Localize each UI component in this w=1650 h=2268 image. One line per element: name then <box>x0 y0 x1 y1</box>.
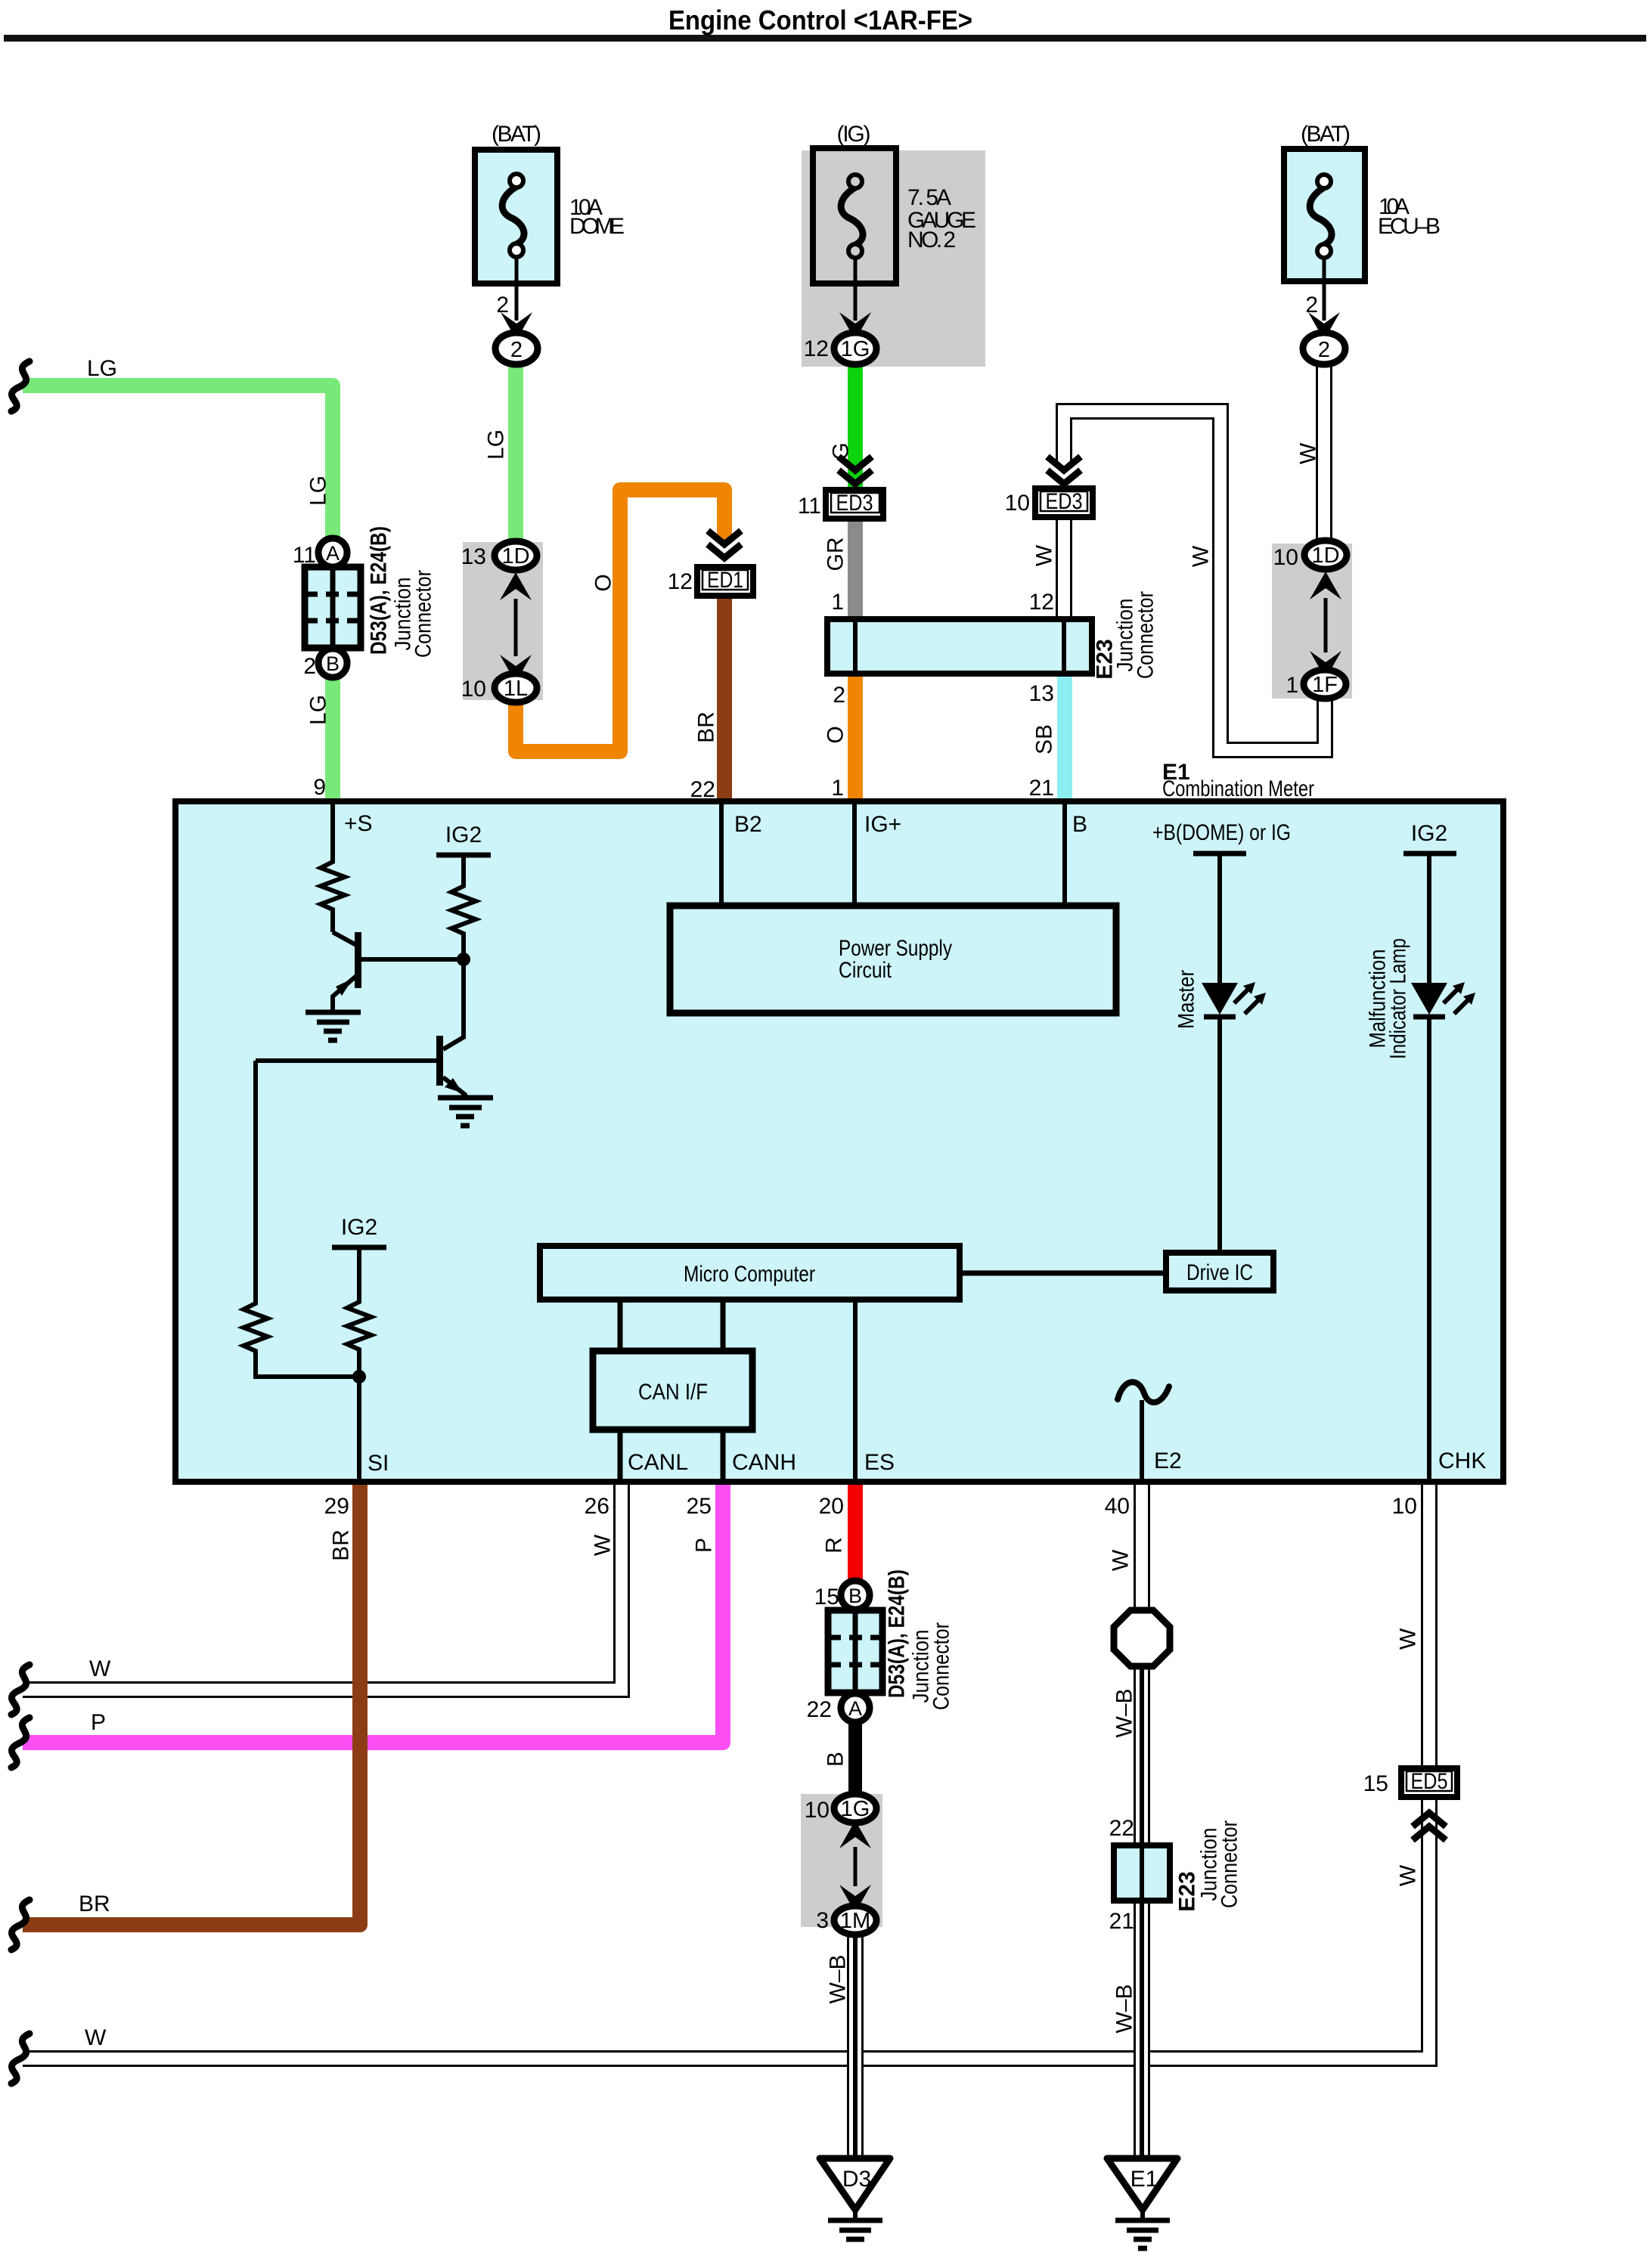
svg-text:10: 10 <box>805 1798 830 1823</box>
svg-text:P: P <box>91 1710 106 1735</box>
svg-text:Engine Control <1AR-FE>: Engine Control <1AR-FE> <box>668 5 972 36</box>
svg-text:B: B <box>823 1752 848 1767</box>
svg-text:BR: BR <box>329 1529 354 1561</box>
svg-text:Indicator Lamp: Indicator Lamp <box>1386 938 1411 1059</box>
node circle A upper <box>318 538 347 567</box>
svg-text:Micro Computer: Micro Computer <box>684 1262 815 1287</box>
svg-text:1: 1 <box>831 590 844 615</box>
svg-text:Drive IC: Drive IC <box>1186 1260 1253 1285</box>
LED Master <box>1174 970 1267 1029</box>
svg-text:CHK: CHK <box>1438 1448 1486 1473</box>
svg-text:CANH: CANH <box>732 1450 796 1475</box>
svg-text:Connector: Connector <box>1217 1820 1242 1908</box>
transistor Q2 <box>256 1036 465 1098</box>
Micro Computer box <box>540 1246 960 1300</box>
pigtail BR <box>11 1900 29 1950</box>
connector ED5 <box>1363 1768 1457 1840</box>
svg-text:ED5: ED5 <box>1411 1769 1448 1794</box>
svg-text:IG+: IG+ <box>864 812 901 837</box>
E1 Combination Meter box <box>175 760 1503 1482</box>
wire O 1L to ED1 <box>516 490 724 751</box>
octagon noise filter on E2 wire <box>1114 1610 1170 1666</box>
svg-text:R: R <box>822 1537 847 1554</box>
ground E1 <box>1107 2158 1177 2248</box>
fuse 7.5A GAUGE NO.2 <box>804 122 976 361</box>
svg-text:W–B: W–B <box>1112 1984 1137 2033</box>
svg-text:12: 12 <box>1029 590 1054 615</box>
svg-text:W: W <box>591 1534 616 1556</box>
resistor at +S <box>321 857 345 932</box>
svg-text:21: 21 <box>1109 1909 1134 1934</box>
Power Supply Circuit box <box>670 906 1116 1013</box>
ground inside meter below Q2 <box>438 1098 493 1126</box>
junction connector D53(A),E24(B) upper grid <box>305 567 361 648</box>
svg-text:2: 2 <box>510 338 523 362</box>
svg-text:CANL: CANL <box>628 1450 688 1475</box>
svg-text:1M: 1M <box>840 1909 870 1933</box>
resistor below IG2 lower <box>347 1297 371 1377</box>
svg-text:NO. 2: NO. 2 <box>907 228 956 253</box>
pigtail W bottom <box>11 2034 29 2084</box>
gray highlight block: 1D-1L connector pass-through <box>463 542 543 700</box>
svg-text:LG: LG <box>484 429 509 460</box>
svg-text:15: 15 <box>1363 1771 1388 1796</box>
svg-text:W: W <box>1396 1628 1421 1650</box>
svg-text:IG2: IG2 <box>341 1215 377 1240</box>
svg-text:7. 5A: 7. 5A <box>907 185 951 210</box>
svg-text:E2: E2 <box>1154 1448 1182 1473</box>
node circle B upper <box>318 649 347 677</box>
svg-text:B: B <box>326 652 340 675</box>
svg-text:1F: 1F <box>1312 673 1338 697</box>
ground D3 <box>820 2158 890 2239</box>
gray highlight block: 1G-1M connector pass-through <box>801 1794 882 1927</box>
svg-text:1D: 1D <box>1311 544 1339 568</box>
node IG2 right <box>1403 821 1456 983</box>
wire color labels rotated <box>79 356 1421 2050</box>
svg-text:BR: BR <box>79 1892 110 1916</box>
wire P meter CANH to left pigtail <box>23 1474 723 1743</box>
svg-text:ED3: ED3 <box>1046 489 1083 514</box>
ground inside meter below Q1 <box>305 1012 361 1040</box>
svg-text:W: W <box>85 2025 107 2050</box>
connector ellipse 2 below ECU-B fuse <box>1303 333 1345 364</box>
svg-text:E1: E1 <box>1130 2167 1158 2192</box>
svg-text:P: P <box>692 1538 717 1553</box>
junction connector E23 upper <box>827 590 1158 801</box>
svg-text:2: 2 <box>1318 338 1330 362</box>
svg-text:O: O <box>591 574 616 591</box>
svg-text:+B(DOME) or IG: +B(DOME) or IG <box>1152 820 1291 845</box>
connector ellipse 1L left <box>461 544 537 702</box>
svg-text:W: W <box>1109 1549 1134 1571</box>
svg-text:O: O <box>823 726 848 743</box>
svg-text:W: W <box>1296 442 1321 464</box>
svg-text:13: 13 <box>461 544 486 569</box>
title Engine Control <box>4 5 1646 42</box>
svg-text:(BAT): (BAT) <box>492 122 541 147</box>
svg-text:(BAT): (BAT) <box>1301 122 1351 147</box>
junction connector E23 lower <box>1109 1816 1242 1934</box>
svg-text:22: 22 <box>1109 1816 1134 1841</box>
svg-text:1G: 1G <box>841 1797 870 1821</box>
svg-text:W: W <box>1189 545 1214 567</box>
svg-text:GR: GR <box>823 538 848 572</box>
terminal stubs B2 IG+ B <box>721 801 1087 906</box>
svg-text:CAN I/F: CAN I/F <box>638 1380 708 1405</box>
pigtail P <box>11 1718 29 1768</box>
svg-text:1: 1 <box>831 776 844 801</box>
svg-text:Combination Meter: Combination Meter <box>1162 776 1314 801</box>
svg-text:B2: B2 <box>734 812 762 837</box>
resistor lower-left <box>243 1299 359 1377</box>
svg-text:LG: LG <box>87 356 117 381</box>
node circle A lower <box>807 1693 870 1722</box>
svg-text:IG2: IG2 <box>1411 821 1447 846</box>
wire Micro Computer to Drive IC <box>960 1271 1166 1276</box>
pigtail W upper <box>11 1665 29 1715</box>
svg-text:LG: LG <box>306 476 331 506</box>
fuse 10A DOME <box>475 122 625 340</box>
labels upper D53 <box>293 526 436 800</box>
connector ED1 <box>668 531 753 802</box>
svg-text:Circuit: Circuit <box>839 958 892 983</box>
wire MIL LED to CHK terminal <box>1429 1017 1486 1479</box>
svg-text:Connector: Connector <box>1134 591 1158 679</box>
wire LED Master to Drive IC <box>1217 1017 1222 1253</box>
svg-text:+S: +S <box>344 811 373 836</box>
connector ellipse 1D right with pass-through arrows <box>1304 541 1347 679</box>
svg-text:D53(A), E24(B): D53(A), E24(B) <box>885 1569 910 1698</box>
svg-text:W–B: W–B <box>1112 1688 1137 1737</box>
connector ellipse 1D left with pass-through arrows <box>495 541 537 683</box>
svg-text:1: 1 <box>1286 673 1298 698</box>
svg-text:2: 2 <box>303 654 316 679</box>
junction connector D53(A),E24(B) lower grid <box>828 1569 954 1710</box>
junction node dot lower <box>352 1370 366 1383</box>
svg-text:B: B <box>848 1585 862 1607</box>
svg-text:25: 25 <box>687 1494 712 1519</box>
wire W bottom pigtail to ED5 to meter CHK <box>23 1474 1429 2059</box>
svg-text:12: 12 <box>668 569 693 594</box>
svg-text:20: 20 <box>819 1494 844 1519</box>
wire LG circle B to meter +S pin 9 <box>325 677 340 809</box>
E2 pigtail squiggle inside meter <box>1118 1382 1182 1479</box>
svg-text:10: 10 <box>1392 1494 1417 1519</box>
svg-text:ED1: ED1 <box>707 568 743 593</box>
wire BR ED1 to meter B2 <box>717 594 732 809</box>
connector ellipse 1G lower with arrows <box>805 1794 876 1913</box>
wire node to SI terminal <box>357 1377 361 1479</box>
wires CANL CANH ES to bottom edge <box>368 1300 895 1479</box>
svg-text:W: W <box>89 1656 111 1681</box>
gray highlight block: 1D-1F connector pass-through <box>1272 544 1352 699</box>
junction node dot <box>457 953 470 966</box>
svg-text:11: 11 <box>798 494 821 519</box>
svg-text:12: 12 <box>804 336 829 361</box>
node terminal +S pin 9 <box>333 801 373 857</box>
svg-text:D3: D3 <box>842 2167 871 2192</box>
wire SB E23 to meter B <box>1057 671 1072 809</box>
connector ellipse 1M <box>816 1906 876 1935</box>
svg-text:10: 10 <box>1273 545 1298 570</box>
wire B circle A to 1G <box>848 1721 862 1799</box>
svg-text:3: 3 <box>816 1908 829 1933</box>
svg-text:40: 40 <box>1105 1494 1130 1519</box>
svg-text:D53(A), E24(B): D53(A), E24(B) <box>367 526 392 655</box>
transistor Q1 <box>333 932 464 1010</box>
svg-text:W: W <box>1396 1864 1421 1886</box>
svg-text:LG: LG <box>306 695 331 725</box>
wires Micro Computer to CAN I/F <box>620 1300 723 1351</box>
CAN I/F box <box>593 1351 752 1430</box>
svg-text:W–B: W–B <box>826 1954 851 2003</box>
svg-text:W: W <box>1032 544 1057 566</box>
wire W 1F loop to ED3-10 <box>1064 411 1325 750</box>
svg-text:29: 29 <box>324 1494 349 1519</box>
wire LG horizontal from pigtail to D53 <box>23 386 333 540</box>
svg-text:Connector: Connector <box>411 570 436 658</box>
svg-text:G: G <box>829 442 854 460</box>
svg-text:DOME: DOME <box>569 214 625 239</box>
node IG2 upper <box>436 823 491 881</box>
svg-text:10: 10 <box>1005 491 1030 516</box>
wire node to Q2 <box>443 959 464 1049</box>
svg-text:Connector: Connector <box>929 1622 954 1710</box>
svg-text:BR: BR <box>694 711 719 743</box>
pin numbers below meter <box>324 1494 1417 1519</box>
wire R meter ES to circle B <box>848 1474 863 1583</box>
resistor below IG2 upper <box>451 881 476 959</box>
connector ED3 pin 11 <box>798 457 883 519</box>
pigtail LG <box>11 361 29 411</box>
wire W ECU-B fuse to 1D right <box>1316 363 1332 543</box>
svg-text:11: 11 <box>293 543 316 568</box>
svg-text:ED3: ED3 <box>836 491 873 516</box>
svg-text:ECU–B: ECU–B <box>1378 214 1441 239</box>
node IG2 lower <box>332 1215 386 1297</box>
Drive IC box <box>1166 1253 1273 1290</box>
svg-text:SI: SI <box>368 1451 389 1476</box>
connector ellipse 1G below GAUGE fuse <box>834 333 876 364</box>
svg-text:ES: ES <box>864 1450 895 1475</box>
svg-text:(IG): (IG) <box>837 122 871 147</box>
svg-text:1G: 1G <box>841 337 870 361</box>
svg-text:15: 15 <box>814 1585 839 1610</box>
LED Malfunction Indicator Lamp <box>1366 938 1476 1059</box>
wire W meter E2 to octagon <box>1134 1474 1150 1615</box>
node circle B lower <box>814 1581 870 1610</box>
wire BR meter SI to left pigtail <box>23 1474 360 1925</box>
wire W-B 1M to ground D3 <box>847 1932 864 2162</box>
wire GR ED3 to E23 <box>848 517 863 622</box>
svg-text:1D: 1D <box>501 544 529 569</box>
wire O E23 to meter IG+ <box>848 671 863 809</box>
wire W ED3-10 to E23 pin 12 <box>1056 517 1072 622</box>
svg-text:B: B <box>1072 812 1087 837</box>
node +B(DOME) or IG <box>1152 820 1291 983</box>
svg-text:A: A <box>848 1697 862 1720</box>
svg-text:SB: SB <box>1032 724 1057 754</box>
wire W-B octagon to ground E1 <box>1134 1663 1150 2162</box>
svg-text:26: 26 <box>585 1494 609 1519</box>
wire W meter CANL to left pigtail <box>23 1474 622 1690</box>
connector ellipse 2 below DOME fuse <box>495 333 538 364</box>
svg-text:IG2: IG2 <box>445 823 482 847</box>
svg-text:2: 2 <box>1305 293 1318 318</box>
wire Q2 base to lower-left resistor <box>253 1061 258 1299</box>
svg-text:A: A <box>326 542 340 565</box>
svg-text:13: 13 <box>1029 681 1054 706</box>
wire G GAUGE fuse to ED3 <box>848 363 863 490</box>
gray highlight block: GAUGE NO.2 fuse <box>802 150 985 367</box>
wire LG DOME fuse to 1D <box>508 363 523 543</box>
svg-text:10: 10 <box>461 677 486 702</box>
svg-text:2: 2 <box>496 293 509 318</box>
svg-text:2: 2 <box>833 683 845 708</box>
svg-text:1L: 1L <box>504 677 528 701</box>
connector ellipse 1F right <box>1273 545 1346 699</box>
fuse 10A ECU-B <box>1284 122 1441 340</box>
svg-text:9: 9 <box>313 775 326 800</box>
svg-text:21: 21 <box>1029 776 1054 801</box>
connector ED3 pin 10 <box>1005 457 1093 517</box>
svg-text:22: 22 <box>807 1697 832 1722</box>
svg-text:Master: Master <box>1174 970 1199 1029</box>
